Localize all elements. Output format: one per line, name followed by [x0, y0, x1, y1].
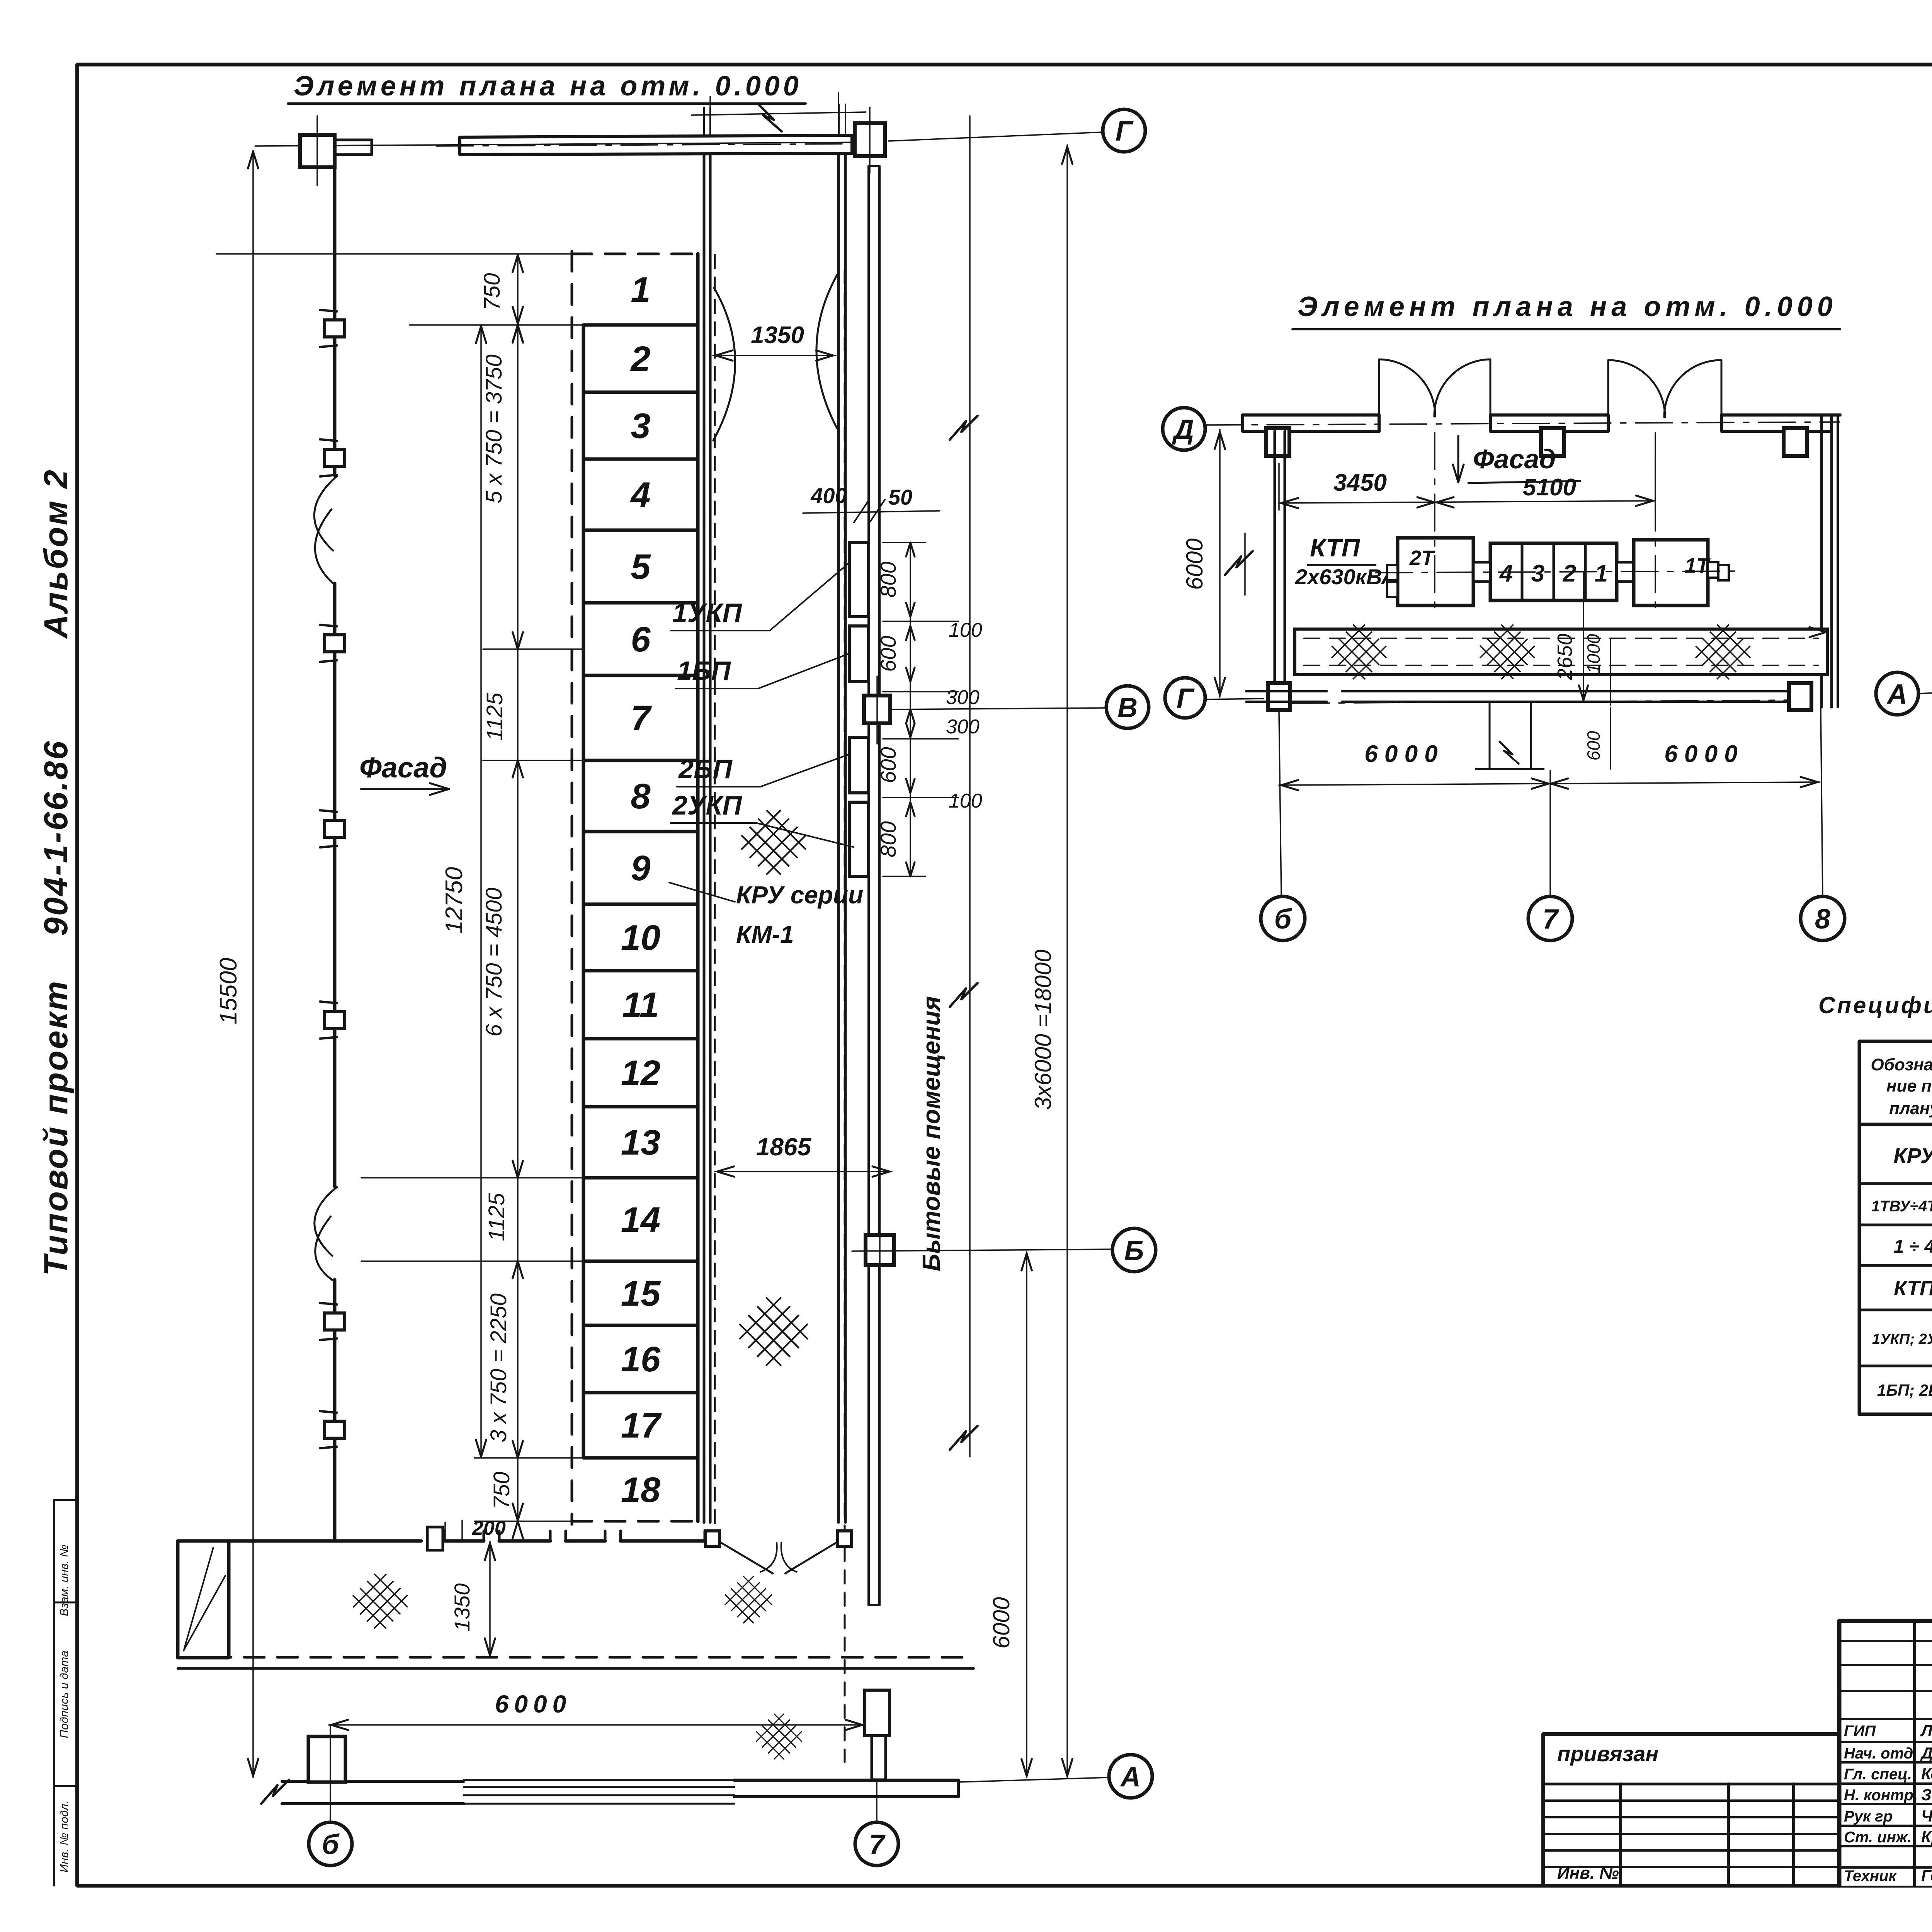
- svg-text:100: 100: [949, 619, 982, 641]
- svg-text:А: А: [1120, 1762, 1141, 1793]
- svg-text:13: 13: [621, 1123, 660, 1162]
- svg-text:1 ÷ 4: 1 ÷ 4: [1894, 1236, 1932, 1257]
- svg-text:6 0 0 0: 6 0 0 0: [1364, 741, 1438, 767]
- svg-text:1БП: 1БП: [677, 656, 731, 686]
- svg-text:2: 2: [1563, 560, 1576, 587]
- svg-text:Д: Д: [1172, 414, 1194, 445]
- svg-text:Г: Г: [1116, 116, 1134, 147]
- svg-text:В: В: [1117, 692, 1138, 723]
- svg-text:1000: 1000: [1583, 634, 1604, 673]
- svg-text:750: 750: [489, 1472, 514, 1509]
- svg-text:300: 300: [946, 716, 980, 738]
- svg-text:Обозначе-: Обозначе-: [1871, 1055, 1932, 1074]
- svg-text:б: б: [322, 1829, 340, 1860]
- svg-text:18: 18: [621, 1470, 661, 1510]
- svg-text:Гор. ткп: Гор. ткп: [1921, 1866, 1932, 1884]
- svg-text:ГИП: ГИП: [1844, 1723, 1876, 1740]
- svg-text:Кошельский: Кошельский: [1921, 1765, 1932, 1783]
- svg-text:Леонов: Леонов: [1920, 1721, 1932, 1740]
- svg-text:11: 11: [622, 985, 659, 1025]
- svg-text:Инв. № подл.: Инв. № подл.: [58, 1801, 71, 1872]
- svg-text:Подпись и дата: Подпись и дата: [58, 1651, 71, 1738]
- svg-text:Элемент плана на отм. 0.00: Элемент плана на отм. 0.000: [294, 71, 802, 102]
- svg-text:Гл. спец.: Гл. спец.: [1844, 1766, 1912, 1783]
- svg-text:КРУ: КРУ: [1893, 1143, 1932, 1168]
- svg-text:3450: 3450: [1333, 469, 1387, 496]
- svg-text:6000: 6000: [1182, 538, 1207, 590]
- svg-text:15500: 15500: [215, 958, 242, 1024]
- svg-text:Инв. №: Инв. №: [1557, 1864, 1619, 1883]
- svg-text:Золотарёва: Золотарёва: [1921, 1786, 1932, 1804]
- svg-text:КМ-1: КМ-1: [736, 920, 794, 948]
- svg-text:400: 400: [810, 483, 847, 508]
- svg-text:7: 7: [869, 1829, 886, 1860]
- svg-text:1: 1: [1595, 560, 1608, 587]
- svg-text:7: 7: [1543, 904, 1559, 935]
- svg-text:904-1-66.86: 904-1-66.86: [37, 740, 75, 936]
- svg-text:12750: 12750: [441, 867, 468, 934]
- svg-text:100: 100: [949, 790, 982, 812]
- svg-text:600: 600: [876, 747, 900, 783]
- svg-text:6 x 750 = 4500: 6 x 750 = 4500: [481, 888, 507, 1036]
- svg-text:1ТВУ÷4ТВУ: 1ТВУ÷4ТВУ: [1871, 1198, 1932, 1215]
- svg-text:1БП; 2БП: 1БП; 2БП: [1877, 1381, 1932, 1399]
- svg-text:1865: 1865: [756, 1133, 812, 1161]
- svg-text:2УКП: 2УКП: [672, 790, 742, 820]
- svg-text:8: 8: [1815, 904, 1830, 935]
- svg-text:плану: плану: [1889, 1099, 1932, 1118]
- svg-text:3: 3: [631, 406, 650, 446]
- svg-text:Элемент плана на отм. 0.00: Элемент плана на отм. 0.000: [1298, 291, 1837, 322]
- svg-text:А: А: [1886, 679, 1907, 710]
- svg-text:2х630кВА: 2х630кВА: [1295, 565, 1397, 589]
- svg-text:ние по: ние по: [1886, 1077, 1932, 1095]
- svg-text:16: 16: [621, 1340, 661, 1379]
- svg-text:Н. контр.: Н. контр.: [1844, 1787, 1918, 1804]
- svg-text:10: 10: [621, 918, 660, 957]
- svg-text:17: 17: [621, 1406, 662, 1446]
- svg-text:8: 8: [631, 777, 651, 816]
- svg-text:4: 4: [630, 475, 650, 515]
- svg-text:Спецификация к размещению: Спецификация к размещению электрооборудо…: [1818, 992, 1932, 1018]
- svg-text:Взам. инв. №: Взам. инв. №: [58, 1544, 71, 1616]
- svg-text:Кравцово: Кравцово: [1921, 1828, 1932, 1846]
- svg-text:б: б: [1274, 904, 1293, 935]
- svg-text:5 x 750 = 3750: 5 x 750 = 3750: [481, 354, 507, 503]
- svg-text:6: 6: [631, 620, 651, 659]
- svg-text:КТП: КТП: [1894, 1277, 1932, 1300]
- svg-text:3: 3: [1531, 560, 1544, 587]
- svg-text:Альбом 2: Альбом 2: [37, 468, 75, 639]
- svg-text:5: 5: [631, 547, 651, 587]
- svg-text:6 0 0 0: 6 0 0 0: [1664, 741, 1738, 767]
- svg-text:3х6000 =18000: 3х6000 =18000: [1030, 949, 1056, 1110]
- svg-text:Г: Г: [1177, 683, 1195, 714]
- svg-text:800: 800: [876, 561, 900, 597]
- svg-text:Фасад: Фасад: [1473, 444, 1556, 474]
- svg-text:2650: 2650: [1553, 634, 1577, 680]
- svg-text:1350: 1350: [751, 322, 804, 349]
- svg-text:Б: Б: [1124, 1235, 1144, 1266]
- svg-text:7: 7: [631, 699, 652, 738]
- svg-text:3 x 750 = 2250: 3 x 750 = 2250: [486, 1293, 511, 1442]
- svg-text:6000: 6000: [988, 1597, 1014, 1648]
- svg-text:5100: 5100: [1523, 474, 1576, 501]
- svg-text:Чапны: Чапны: [1921, 1807, 1932, 1825]
- svg-text:800: 800: [876, 821, 900, 857]
- svg-text:2Т: 2Т: [1409, 546, 1435, 570]
- svg-text:300: 300: [946, 686, 980, 709]
- svg-text:КТП: КТП: [1310, 533, 1361, 562]
- svg-text:Давыдов: Давыдов: [1920, 1744, 1932, 1762]
- svg-text:200: 200: [472, 1517, 506, 1539]
- svg-text:1125: 1125: [482, 692, 507, 741]
- svg-text:750: 750: [480, 273, 505, 311]
- svg-text:1350: 1350: [450, 1583, 474, 1632]
- svg-text:1: 1: [631, 270, 650, 310]
- svg-text:привязан: привязан: [1557, 1742, 1658, 1766]
- svg-text:Рук гр: Рук гр: [1844, 1808, 1893, 1825]
- svg-text:Ст. инж.: Ст. инж.: [1844, 1829, 1912, 1846]
- svg-text:Фасад: Фасад: [359, 752, 447, 784]
- svg-text:9: 9: [631, 849, 650, 888]
- svg-text:600: 600: [1583, 731, 1604, 760]
- svg-text:4: 4: [1499, 560, 1513, 587]
- svg-text:Нач. отд.: Нач. отд.: [1844, 1745, 1917, 1762]
- svg-text:Типовой проект: Типовой проект: [37, 980, 75, 1276]
- svg-text:2: 2: [630, 339, 650, 379]
- svg-text:1УКП: 1УКП: [672, 598, 742, 628]
- svg-text:Бытовые помещения: Бытовые помещения: [917, 996, 945, 1271]
- svg-text:600: 600: [876, 636, 900, 672]
- svg-text:2БП: 2БП: [678, 754, 733, 784]
- svg-text:15: 15: [621, 1274, 661, 1313]
- svg-text:1125: 1125: [484, 1193, 509, 1241]
- svg-text:14: 14: [621, 1200, 660, 1240]
- svg-text:1УКП; 2УКП: 1УКП; 2УКП: [1872, 1331, 1932, 1347]
- svg-text:12: 12: [621, 1053, 660, 1093]
- svg-text:50: 50: [888, 485, 912, 509]
- svg-text:КРУ серии: КРУ серии: [736, 881, 863, 909]
- svg-text:Техник: Техник: [1844, 1867, 1897, 1884]
- svg-text:6000: 6000: [495, 1690, 571, 1718]
- svg-text:1Т: 1Т: [1685, 554, 1711, 577]
